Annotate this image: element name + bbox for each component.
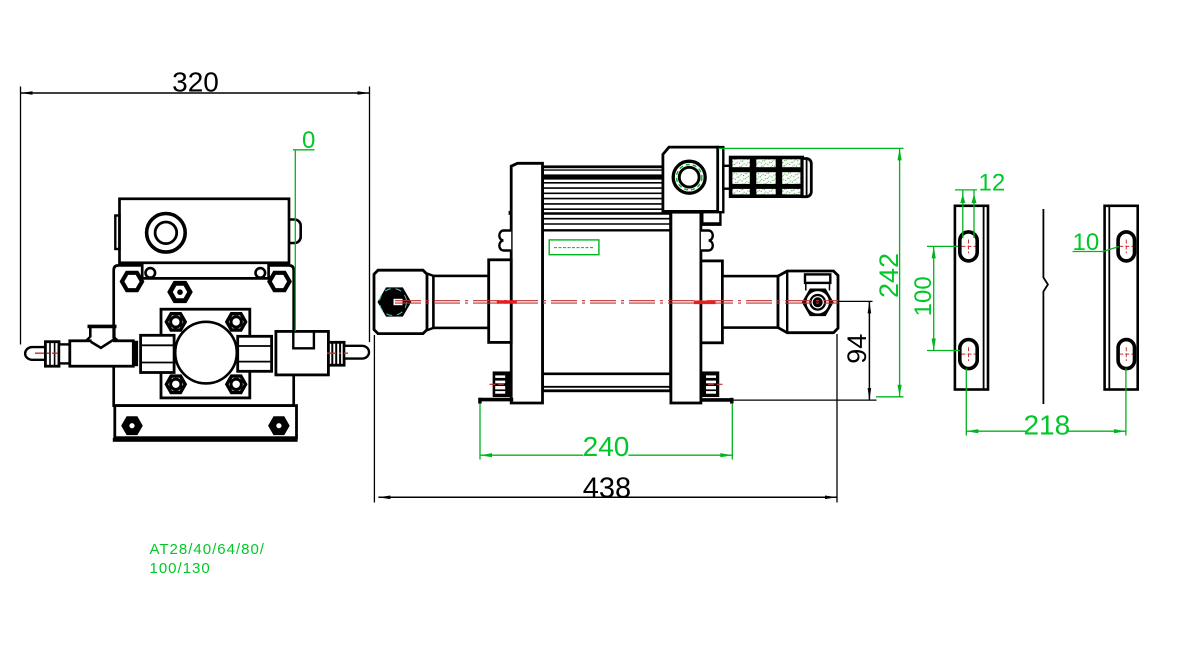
right block top notch	[805, 274, 830, 283]
left hex coupling	[141, 335, 175, 372]
fin line 1	[543, 169, 671, 171]
base pad	[113, 438, 298, 442]
bracket plate 2	[1105, 206, 1138, 390]
base hex bolt left	[123, 418, 142, 434]
hydraulic head big circle	[175, 322, 237, 384]
fin lines	[543, 182, 671, 184]
svg-text:100: 100	[910, 276, 937, 316]
center hex bolt	[170, 283, 190, 300]
plate 1 slot upper	[960, 232, 977, 261]
centerline thick dash 1	[497, 300, 517, 304]
flange hex bolt bottom-left	[166, 376, 185, 392]
right D bump	[289, 220, 301, 244]
muffler connector	[723, 166, 730, 189]
muffler mount plate	[716, 147, 723, 212]
flange hex bolt top-right	[227, 314, 246, 330]
valve top box	[120, 199, 290, 263]
svg-text:242: 242	[874, 253, 904, 298]
left block taper to shaft	[427, 274, 433, 331]
dim 0 leader	[293, 149, 315, 151]
base plate	[115, 406, 297, 438]
bracket plate 1	[955, 206, 988, 390]
gauge port circle outer	[147, 214, 186, 253]
tee branch left wall	[89, 325, 92, 337]
flange hex bolt top-left	[166, 314, 185, 330]
plate 1 slot lower	[960, 340, 977, 369]
front view centerline red dashes	[35, 352, 58, 354]
muffler bracket	[663, 147, 718, 211]
dim 218	[966, 430, 1028, 432]
dim 10 leader	[1073, 251, 1104, 253]
muffler body with speckle fill	[731, 158, 803, 197]
dim 100 (bracket)	[933, 246, 935, 350]
branch chamfer right	[114, 337, 117, 340]
dim 94 line	[734, 301, 877, 400]
right foot	[701, 398, 733, 402]
barrel bottom lines	[543, 372, 671, 375]
break line between plates	[1043, 209, 1048, 404]
nameplate	[549, 240, 599, 255]
tee body right thick edge	[132, 341, 138, 366]
left foot	[479, 398, 514, 402]
right outlet block	[276, 331, 329, 375]
svg-text:438: 438	[583, 473, 631, 505]
left hex nut solid	[379, 289, 410, 316]
fin thick band	[543, 174, 671, 179]
left pipe ring stack	[45, 342, 59, 367]
dim 242	[899, 148, 901, 396]
tie rod tick left	[509, 211, 512, 215]
main centerline red upper	[395, 300, 838, 302]
right pipe rod with round end	[344, 346, 369, 359]
pump body lower outline	[114, 265, 294, 405]
air cylinder barrel	[543, 167, 671, 391]
tee branch interior patch	[92, 339, 113, 343]
tee body	[70, 341, 134, 366]
outlet block notch	[293, 331, 314, 348]
muffler end cap	[802, 159, 811, 197]
ear hex bolt left	[122, 273, 142, 290]
tie rod tick right	[701, 211, 704, 215]
left pipe rod with round end	[25, 347, 45, 360]
flange hex bolt bottom-right	[227, 376, 246, 392]
green arrowheads	[480, 148, 1126, 457]
green dim group	[293, 148, 1126, 459]
dim 320 line	[21, 87, 370, 345]
bracket port outer circle	[673, 161, 705, 193]
left collar	[489, 260, 512, 343]
svg-text:0: 0	[302, 127, 315, 154]
ear pivot circle right	[255, 268, 265, 278]
right hex nut	[803, 290, 832, 315]
svg-text:320: 320	[172, 67, 219, 98]
ear pivot circle left	[146, 268, 156, 278]
left hex nut cyan circle	[380, 289, 407, 316]
plate 2 slot lower	[1118, 340, 1134, 369]
muffler horizontal bands	[731, 167, 803, 172]
right end block	[778, 271, 838, 333]
right collar	[701, 261, 723, 343]
dimension texts	[172, 67, 1099, 505]
right shaft	[722, 276, 778, 328]
mounting flange square	[161, 309, 250, 398]
tee branch right wall	[113, 325, 116, 338]
dim 240	[480, 454, 584, 456]
svg-text:240: 240	[583, 431, 630, 462]
slot center marks red	[962, 240, 1134, 362]
svg-text:94: 94	[842, 334, 872, 364]
centerline thick dash 2	[694, 300, 716, 304]
right hex coupling	[238, 336, 272, 371]
svg-text:10: 10	[1073, 229, 1100, 256]
svg-text:AT28/40/64/80/: AT28/40/64/80/	[150, 541, 265, 558]
left small tab	[115, 216, 119, 250]
left end plate	[511, 163, 542, 403]
left piston shaft	[433, 276, 488, 328]
ridged connector	[328, 342, 344, 365]
right end plate	[671, 212, 701, 403]
left hex nut white notch	[394, 299, 403, 305]
left foot stud	[493, 372, 510, 396]
bracket port inner circle	[679, 167, 699, 187]
svg-text:100/130: 100/130	[150, 560, 211, 577]
main centerline red lower	[395, 302, 838, 304]
ear hex bolt right	[270, 273, 290, 290]
dim 12	[955, 189, 977, 191]
bracket port green dashed circle	[677, 165, 702, 190]
left pipe sleeve	[59, 344, 70, 363]
right foot stud	[702, 372, 719, 396]
clevis tab right	[701, 231, 713, 251]
plate 2 slot upper	[1118, 232, 1134, 261]
left rod block	[374, 270, 427, 333]
clevis tab left	[499, 231, 511, 251]
model text	[150, 541, 265, 577]
dim 438 line	[374, 334, 837, 503]
branch chamfer left	[86, 337, 90, 341]
muffler vertical bands	[750, 158, 757, 197]
small block under muffler plate	[702, 212, 720, 225]
tee branch cap	[88, 325, 117, 329]
svg-text:218: 218	[1023, 410, 1070, 441]
gauge port circle inner	[155, 222, 177, 244]
svg-text:12: 12	[979, 169, 1006, 196]
base hex bolt right	[270, 418, 289, 434]
tee V notch	[91, 340, 114, 348]
